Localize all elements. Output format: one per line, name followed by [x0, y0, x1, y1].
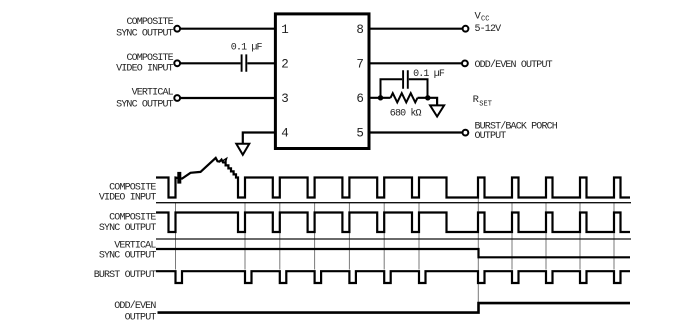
timing grid verticals second half	[512, 202, 614, 270]
wire pin6	[369, 98, 437, 105]
svg-text:0.1 µF: 0.1 µF	[413, 69, 445, 80]
capacitor C1 plates	[242, 54, 247, 71]
ground pin4	[236, 144, 249, 155]
capacitor C2 plates	[403, 70, 408, 89]
waveform ODD/EVEN OUTPUT	[158, 303, 631, 313]
wire pin2 left	[180, 62, 240, 64]
svg-text:SYNC OUTPUT: SYNC OUTPUT	[99, 251, 157, 262]
resistor R 680k zigzag	[391, 93, 418, 102]
timing grid verticals first half	[176, 202, 420, 270]
terminal circle pin3	[174, 95, 180, 101]
waveform COMPOSITE SYNC OUTPUT	[156, 213, 630, 233]
baseline row1	[156, 202, 631, 204]
wire pin7	[369, 62, 462, 64]
wire pin2 right	[247, 62, 275, 64]
svg-text:7: 7	[356, 57, 364, 71]
svg-text:8: 8	[356, 23, 364, 37]
wire pin3	[180, 97, 275, 99]
svg-text:OUTPUT: OUTPUT	[475, 131, 507, 142]
terminal circle pin7	[462, 61, 468, 67]
svg-text:ODD/EVEN OUTPUT: ODD/EVEN OUTPUT	[475, 59, 553, 71]
svg-text:1: 1	[281, 23, 289, 37]
op-amp U1 (IC body)	[275, 14, 369, 149]
svg-text:0.1 µF: 0.1 µF	[231, 43, 263, 54]
svg-text:680 kΩ: 680 kΩ	[390, 107, 422, 119]
svg-text:CC: CC	[481, 16, 489, 24]
svg-text:6: 6	[356, 92, 364, 106]
terminal circle pin8	[463, 26, 469, 32]
terminal circle pin2	[174, 60, 180, 66]
waveform BURST OUTPUT	[156, 271, 630, 283]
wire pin4	[243, 133, 276, 144]
node junction dot A	[378, 95, 383, 100]
wire pin8	[369, 28, 463, 30]
svg-text:OUTPUT: OUTPUT	[125, 312, 157, 323]
capacitor C2 branch wires	[381, 79, 428, 98]
svg-text:COMPOSITE: COMPOSITE	[126, 53, 173, 64]
wire pin5	[369, 131, 462, 133]
terminal circle pin5	[463, 130, 469, 136]
small spike on video hump	[223, 159, 227, 163]
svg-text:ODD/EVEN: ODD/EVEN	[114, 300, 156, 312]
svg-text:2: 2	[281, 57, 289, 71]
svg-text:VIDEO INPUT: VIDEO INPUT	[99, 193, 157, 204]
timing grid thin vertical marker field transition	[477, 178, 479, 303]
node junction dot B	[425, 95, 430, 100]
svg-text:5: 5	[356, 127, 364, 141]
svg-text:4: 4	[281, 127, 289, 141]
terminal circle pin1	[174, 26, 180, 32]
svg-text:BURST OUTPUT: BURST OUTPUT	[94, 270, 157, 281]
baseline row2	[156, 238, 631, 240]
svg-text:SYNC OUTPUT: SYNC OUTPUT	[116, 100, 174, 111]
waveform COMPOSITE VIDEO INPUT	[156, 158, 630, 198]
wire pin1	[180, 28, 275, 30]
svg-text:VIDEO INPUT: VIDEO INPUT	[116, 63, 174, 74]
svg-text:SET: SET	[479, 100, 492, 108]
svg-text:5-12V: 5-12V	[475, 24, 502, 35]
burst flag mark on video waveform	[177, 172, 181, 184]
svg-text:3: 3	[281, 92, 289, 106]
svg-text:COMPOSITE: COMPOSITE	[126, 17, 173, 28]
svg-text:SYNC OUTPUT: SYNC OUTPUT	[116, 28, 174, 39]
svg-text:SYNC OUTPUT: SYNC OUTPUT	[99, 223, 157, 234]
waveform VERTICAL SYNC OUTPUT	[156, 249, 630, 257]
ground pin6	[430, 105, 444, 116]
svg-text:VERTICAL: VERTICAL	[132, 87, 174, 98]
